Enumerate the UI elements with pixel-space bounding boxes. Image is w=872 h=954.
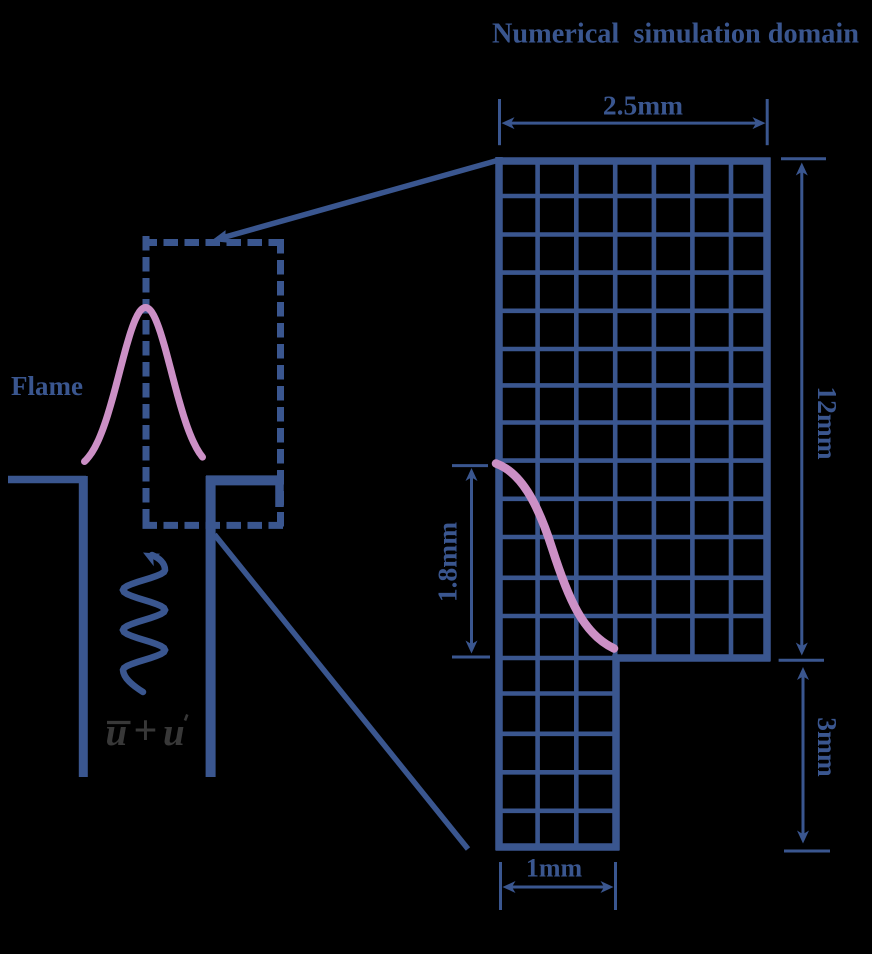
dimension 12mm arrow line [800,166,803,652]
domain extension right border [612,655,620,851]
flame bell curve [85,308,203,462]
dimension 3mm bottom tick [784,850,830,853]
dimension 12mm ticks [781,157,826,160]
domain border right [763,158,771,662]
dashed box bottom edge [143,522,285,529]
dimension 1mm arrow line [506,886,610,889]
svg-text:u: u [163,711,185,754]
domain border left [495,157,503,850]
dimension 3mm top tick [779,659,824,662]
svg-text:u: u [106,711,128,754]
burner right flange [206,475,281,485]
svg-text:12mm: 12mm [812,386,843,459]
svg-text:3mm: 3mm [812,717,843,777]
domain border bottom-right step [613,654,771,662]
burner left flange [8,476,86,484]
diagonal connector top [218,160,499,239]
dimension 1.8mm bottom tick [452,656,490,659]
burner right wall [206,476,216,777]
wavy arrow squiggle [123,555,165,692]
numerical domain grid [535,160,540,847]
svg-text:Numerical simulation domain: Numerical simulation domain [492,19,859,50]
domain border top [496,157,771,165]
svg-text:2.5mm: 2.5mm [603,90,683,121]
diagonal connector bottom [215,535,469,850]
dimension 2.5mm arrow line [505,122,762,125]
dimension 1mm ticks [499,862,502,910]
dimension 1.8mm top tick [452,464,488,467]
burner left wall [79,476,88,777]
burner right lip [275,476,284,507]
dimension 1.8mm arrow line [470,472,473,650]
dimension 3mm arrow line [802,671,805,840]
domain extension bottom border [496,843,620,851]
dashed box top edge [143,239,285,246]
svg-text:1mm: 1mm [526,854,583,883]
dashed box right edge [277,239,284,529]
svg-text:1.8mm: 1.8mm [432,522,463,602]
svg-text:+: + [134,708,158,754]
flame front S-curve [496,464,614,649]
dashed box left edge [143,236,150,529]
svg-text:Flame: Flame [11,371,83,401]
dimension 2.5mm ticks [498,99,501,145]
wavy arrow head [143,553,160,567]
